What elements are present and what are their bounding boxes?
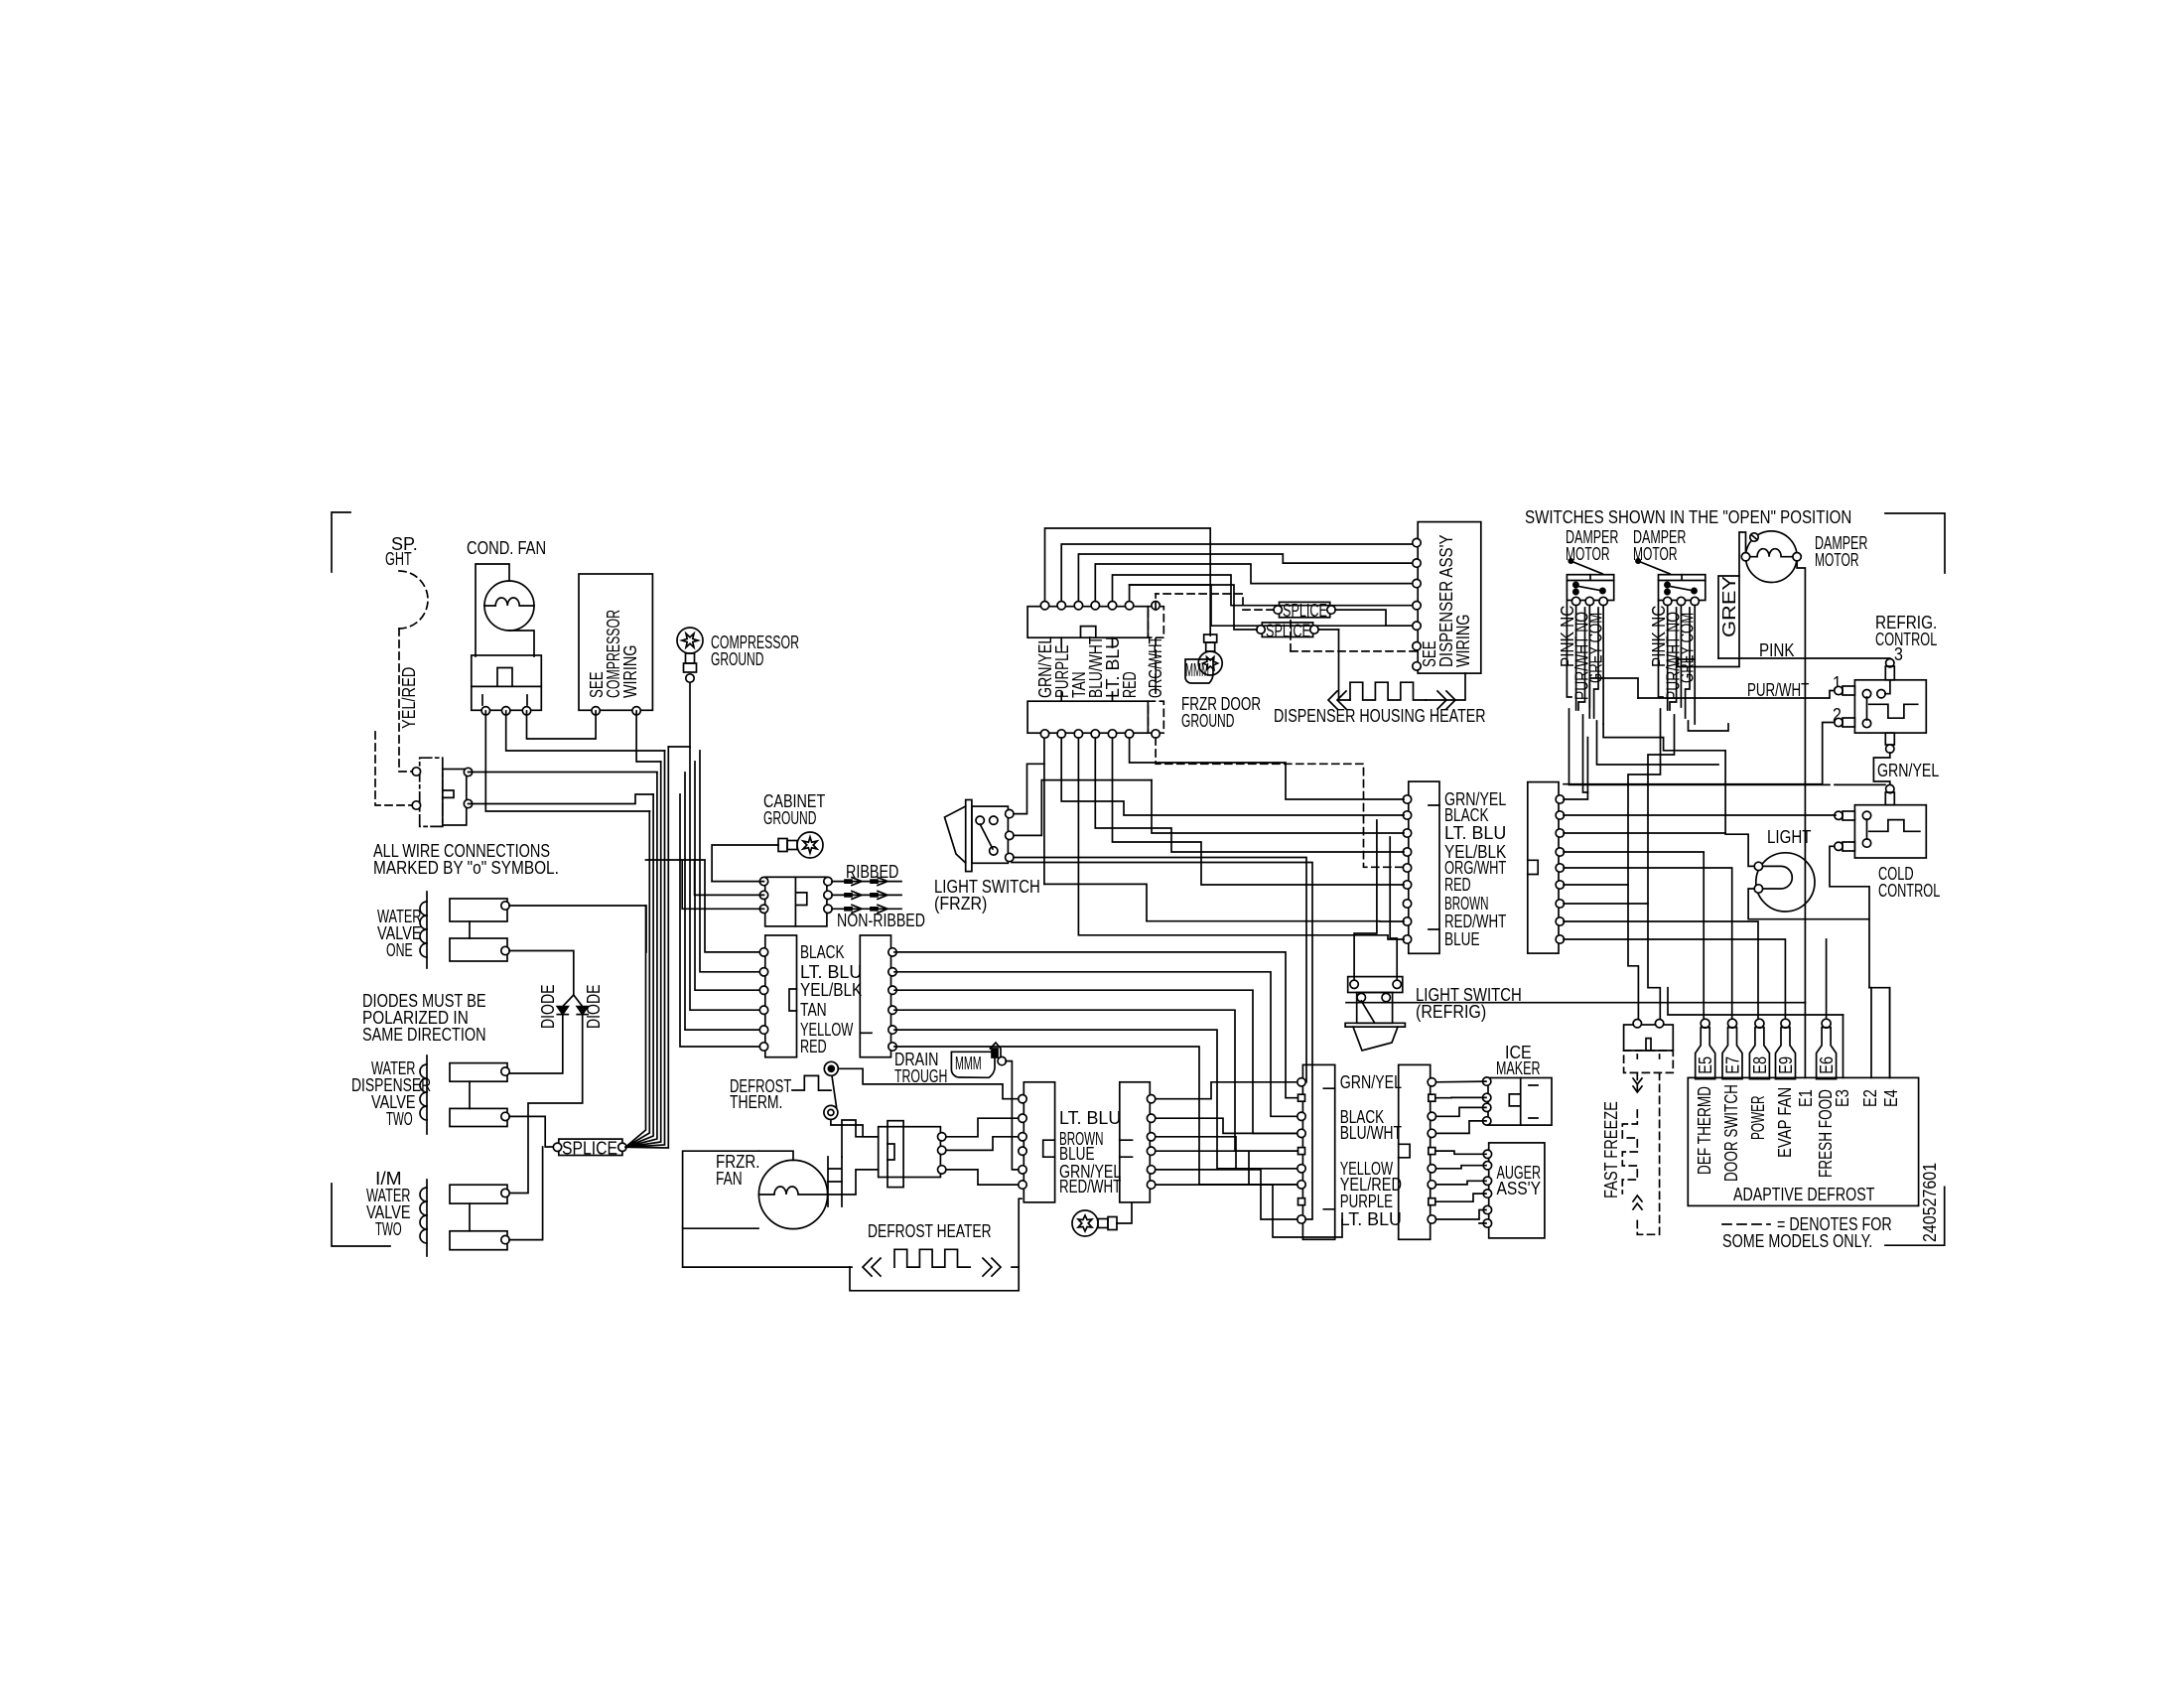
water dispenser valve terminal top bbox=[501, 1067, 509, 1075]
relay terminal 2 bbox=[502, 707, 510, 715]
svg-text:PURPLE: PURPLE bbox=[1340, 1192, 1393, 1211]
svg-text:SWITCHES SHOWN IN THE "OPEN" P: SWITCHES SHOWN IN THE "OPEN" POSITION bbox=[1525, 507, 1851, 527]
svg-text:BLU/WHT: BLU/WHT bbox=[1340, 1123, 1402, 1143]
svg-text:BLUE: BLUE bbox=[1444, 929, 1480, 949]
light switch REFRIG base plate bbox=[1345, 1023, 1405, 1027]
svg-text:PUR/WHT: PUR/WHT bbox=[1747, 680, 1809, 700]
spade terminal E6 bbox=[1822, 1019, 1831, 1028]
evap ground lug bbox=[1072, 1210, 1117, 1236]
svg-text:BLUE: BLUE bbox=[1059, 1144, 1095, 1164]
water valve one terminal bottom bbox=[501, 946, 509, 954]
svg-text:LT. BLU: LT. BLU bbox=[1444, 823, 1506, 843]
damper motor circle bbox=[1746, 531, 1798, 583]
upper strip dashed section bbox=[1148, 607, 1163, 638]
svg-text:DEF THERMD: DEF THERMD bbox=[1695, 1086, 1714, 1175]
relay terminal 1 bbox=[481, 707, 489, 715]
svg-text:E6: E6 bbox=[1817, 1056, 1837, 1074]
svg-text:GROUND: GROUND bbox=[711, 649, 763, 669]
auger pins bbox=[1483, 1150, 1491, 1158]
wires heater connector east bbox=[946, 1118, 1022, 1137]
water dispenser valve terminal bottom bbox=[501, 1112, 509, 1120]
ice maker pins bbox=[1483, 1077, 1491, 1085]
page corner bracket bottom-right bbox=[1885, 1187, 1945, 1245]
svg-text:CONTROL: CONTROL bbox=[1878, 881, 1940, 901]
cold control pin2 bbox=[1835, 842, 1843, 850]
svg-text:DEFROST HEATER: DEFROST HEATER bbox=[868, 1221, 992, 1241]
svg-text:MAKER: MAKER bbox=[1496, 1058, 1541, 1078]
cabinet ground wire bbox=[712, 845, 778, 882]
wire splice S3 right to heater bbox=[1318, 629, 1339, 631]
connector D pins bbox=[1428, 1078, 1435, 1086]
light switch REFRIG body bbox=[1357, 993, 1393, 1024]
IM water valve connector bbox=[450, 1185, 507, 1203]
splice S3 terminals bbox=[1257, 626, 1265, 633]
splice S2 terminals bbox=[1274, 606, 1282, 614]
wires lower strip drops to refrig harness connector bbox=[1061, 738, 1404, 885]
compressor box terminal 2 bbox=[632, 707, 640, 715]
wire row 874 to E7 bbox=[1564, 868, 1732, 1019]
damper switch column wires bbox=[1567, 601, 1695, 725]
lower strip dashed pin bbox=[1152, 730, 1160, 738]
wire feeders to wire-label connector bbox=[680, 747, 765, 1047]
dispenser box pins bbox=[1413, 538, 1421, 546]
svg-text:GREY: GREY bbox=[1719, 576, 1739, 637]
condenser fan relay box bbox=[472, 655, 542, 710]
damper switch SW1 bbox=[1567, 575, 1613, 601]
freezer harness connector bbox=[765, 877, 827, 926]
wire defrost therm top bbox=[838, 1068, 1022, 1098]
door switch dash-dot outline bbox=[420, 758, 443, 826]
page corner bracket top-left bbox=[332, 512, 350, 572]
page corner bracket top-right bbox=[1885, 513, 1945, 573]
damper motor terminals bbox=[1741, 553, 1749, 561]
strip column tick marks bbox=[1061, 637, 1112, 701]
damper switch 2 callout bbox=[1638, 561, 1670, 574]
dispenser assembly wiring box bbox=[1418, 522, 1481, 674]
freezer fan connector bars bbox=[828, 1157, 842, 1206]
wire light bottom bbox=[1748, 889, 1869, 919]
svg-text:RED: RED bbox=[1120, 671, 1140, 698]
svg-text:WIRING: WIRING bbox=[620, 645, 640, 698]
svg-text:CONTROL: CONTROL bbox=[1875, 630, 1937, 649]
fast freeze connector dashed bbox=[1624, 1051, 1674, 1072]
light switch FRZR terminals bbox=[1006, 809, 1014, 817]
door switch body bbox=[443, 770, 467, 826]
cabinet ground lug bbox=[778, 832, 823, 858]
svg-text:(FRZR): (FRZR) bbox=[934, 894, 987, 914]
wire light switch FRZR t1 bbox=[1014, 733, 1044, 813]
wire splice S2 right bbox=[1335, 610, 1418, 626]
spade terminal E5 bbox=[1701, 1019, 1709, 1028]
refrig harness connector right pins bbox=[1556, 795, 1564, 803]
svg-text:YEL/BLK: YEL/BLK bbox=[800, 980, 862, 1000]
drain trough clip bbox=[990, 1043, 1001, 1060]
light switch FRZR wedge bbox=[945, 806, 966, 863]
svg-text:E3: E3 bbox=[1833, 1089, 1852, 1107]
condenser fan motor side box bbox=[509, 631, 534, 656]
wire-name connector left box bbox=[765, 935, 797, 1057]
svg-text:BROWN: BROWN bbox=[1444, 894, 1489, 914]
freezer harness right pins bbox=[824, 877, 832, 885]
defrost heater arrows bbox=[863, 1258, 881, 1276]
svg-text:ASS'Y: ASS'Y bbox=[1497, 1179, 1542, 1198]
dispenser heater arrows bbox=[1328, 691, 1346, 709]
wire-name connector right pins bbox=[888, 948, 896, 956]
light switch REFRIG top bar bbox=[1348, 977, 1403, 993]
fast freeze dashed meander bbox=[1636, 1072, 1638, 1092]
svg-text:GRN/YEL: GRN/YEL bbox=[1877, 761, 1939, 780]
ice maker box bbox=[1488, 1078, 1552, 1126]
svg-text:PINK: PINK bbox=[1759, 640, 1795, 660]
svg-text:THERM.: THERM. bbox=[730, 1092, 782, 1112]
svg-text:SOME MODELS ONLY.: SOME MODELS ONLY. bbox=[1722, 1231, 1872, 1251]
diode D1 bbox=[563, 995, 574, 1007]
svg-text:TWO: TWO bbox=[386, 1109, 413, 1129]
svg-text:RED: RED bbox=[800, 1037, 827, 1056]
wire door switch t3 row bbox=[469, 772, 657, 774]
refrig harness connector left pins bbox=[1403, 795, 1411, 803]
upper strip dashed pin bbox=[1152, 602, 1160, 610]
svg-text:GROUND: GROUND bbox=[1181, 711, 1234, 731]
svg-text:COND. FAN: COND. FAN bbox=[467, 538, 546, 558]
svg-text:YEL/RED: YEL/RED bbox=[399, 667, 419, 729]
svg-text:TAN: TAN bbox=[800, 1000, 827, 1020]
damper switch 1 callout bbox=[1570, 561, 1602, 574]
defrost thermostat callout step bbox=[792, 1075, 831, 1090]
wire dashed to dispenser pin6 bbox=[1291, 650, 1418, 652]
cold control top pin bbox=[1886, 784, 1894, 792]
wire refrig pin2 bbox=[1564, 723, 1835, 784]
IM water valve coil bbox=[426, 1180, 428, 1256]
wire freezer harness feeds bbox=[712, 881, 763, 883]
freezer harness left pins bbox=[759, 877, 767, 885]
svg-text:RED: RED bbox=[1444, 875, 1471, 895]
svg-text:MOTOR: MOTOR bbox=[1815, 550, 1859, 570]
heater connector pins bbox=[938, 1133, 946, 1141]
freezer door harness upper strip bbox=[1027, 607, 1148, 638]
wires D to ice maker bbox=[1436, 1081, 1487, 1133]
light switch FRZR inner contacts bbox=[976, 816, 984, 824]
damper switch SW2 bbox=[1659, 575, 1706, 601]
wire frzr fan bottom lead bbox=[683, 1228, 850, 1267]
wire light top bbox=[1603, 724, 1754, 866]
connector A pins bbox=[1019, 1095, 1026, 1103]
svg-text:NON-RIBBED: NON-RIBBED bbox=[837, 911, 925, 930]
compressor box terminal 1 bbox=[592, 707, 600, 715]
water dispenser valve connector bbox=[450, 1063, 507, 1082]
wire freezer fan top bbox=[758, 1151, 793, 1160]
svg-text:DOOR SWITCH: DOOR SWITCH bbox=[1721, 1084, 1741, 1182]
wire cold pin2 down bbox=[1830, 846, 1890, 1077]
icemaker connector C bbox=[1302, 1064, 1334, 1239]
light switch REFRIG wedge bbox=[1353, 1027, 1398, 1051]
refrig control inner bbox=[1862, 690, 1870, 698]
cold control box bbox=[1854, 805, 1926, 858]
wire valve one top bbox=[509, 906, 646, 952]
svg-text:EVAP FAN: EVAP FAN bbox=[1775, 1087, 1795, 1158]
wire rows east of wire-name connector bbox=[894, 952, 1298, 1185]
wire diode right to IM valve bbox=[509, 1015, 583, 1194]
compressor ground lug bbox=[677, 628, 703, 672]
wire defrost therm bottom bbox=[831, 1119, 879, 1136]
wire damper motor right down bbox=[1797, 561, 1805, 1003]
svg-text:DIODE: DIODE bbox=[538, 985, 558, 1030]
condenser fan motor frame bbox=[476, 564, 509, 656]
wires heater connector west bbox=[842, 1120, 879, 1157]
spade terminal E9 bbox=[1781, 1019, 1790, 1028]
auger assembly box bbox=[1489, 1143, 1545, 1238]
refrig control bottom pin bbox=[1885, 733, 1894, 745]
fast freeze connector pins bbox=[1633, 1020, 1641, 1028]
defrost thermostat contacts bbox=[824, 1061, 838, 1075]
wire riser bundle to splice bbox=[625, 747, 668, 1148]
svg-text:E7: E7 bbox=[1723, 1056, 1743, 1074]
splice S1 terminal left bbox=[553, 1143, 561, 1151]
page corner bracket bottom-left bbox=[332, 1184, 390, 1246]
svg-text:WIRING: WIRING bbox=[1453, 615, 1473, 667]
heater connector inner bbox=[887, 1121, 903, 1188]
light switch REFRIG pins bbox=[1350, 980, 1358, 988]
svg-text:MARKED BY "o" SYMBOL.: MARKED BY "o" SYMBOL. bbox=[373, 858, 559, 878]
freezer door ground MMM box bbox=[1185, 659, 1213, 683]
wire freezer fan to plug bbox=[828, 1181, 842, 1183]
svg-text:LT. BLU: LT. BLU bbox=[1340, 1209, 1402, 1229]
door switch terminal 3 bbox=[464, 768, 472, 775]
heater connector outer bbox=[879, 1127, 941, 1178]
condenser fan motor circle bbox=[484, 581, 534, 631]
door switch terminal 4 bbox=[464, 799, 472, 807]
svg-text:POWER: POWER bbox=[1748, 1096, 1768, 1141]
wire light switch t2 chain to right connector bbox=[1152, 780, 1404, 833]
wire-name connector right box bbox=[860, 935, 890, 1057]
wire dashed branch bbox=[375, 732, 416, 805]
svg-text:SAME DIRECTION: SAME DIRECTION bbox=[362, 1025, 486, 1045]
svg-text:E5: E5 bbox=[1696, 1056, 1715, 1074]
connector C pins bbox=[1297, 1078, 1305, 1086]
water valve one coil bbox=[426, 892, 428, 968]
svg-text:ADAPTIVE DEFROST: ADAPTIVE DEFROST bbox=[1733, 1185, 1874, 1204]
splice S2 box bbox=[1280, 602, 1330, 617]
refrig harness connector left bbox=[1409, 781, 1439, 953]
adaptive defrost board box bbox=[1688, 1077, 1918, 1205]
cold control pin1 bbox=[1835, 811, 1843, 819]
damper switch bottom rows bbox=[1570, 709, 1831, 904]
svg-text:ONE: ONE bbox=[386, 940, 413, 960]
lower strip bbox=[1027, 701, 1148, 733]
wire upper strip fan to dispenser box bbox=[1045, 528, 1211, 635]
fast freeze connector solid bbox=[1624, 1025, 1674, 1051]
svg-text:TWO: TWO bbox=[375, 1219, 402, 1239]
wire-name connector left pins bbox=[759, 948, 767, 956]
wire IM valve bottom to splice bbox=[509, 1147, 543, 1240]
svg-text:TROUGH: TROUGH bbox=[894, 1066, 947, 1086]
svg-text:DIODE: DIODE bbox=[584, 985, 604, 1030]
drain trough terminal bbox=[998, 1056, 1006, 1064]
compressor wiring box bbox=[579, 574, 652, 710]
wire splice S2 left bbox=[1156, 594, 1274, 610]
svg-text:(REFRIG): (REFRIG) bbox=[1416, 1002, 1486, 1022]
wire grey damper motor bbox=[1678, 532, 1746, 667]
light terminals bbox=[1754, 862, 1762, 870]
svg-text:RED/WHT: RED/WHT bbox=[1444, 912, 1506, 931]
water valve one terminal top bbox=[501, 902, 509, 910]
svg-text:SPLICE: SPLICE bbox=[562, 1139, 617, 1159]
wire drain trough down bbox=[1006, 1061, 1022, 1170]
wire GRN/YEL jog bbox=[1873, 753, 1889, 784]
refrigerator light circle bbox=[1756, 853, 1815, 912]
wire valve two bottom to splice bbox=[509, 1116, 556, 1147]
svg-text:GRN/YEL: GRN/YEL bbox=[1340, 1072, 1402, 1092]
defrost heater leads bbox=[850, 1198, 1022, 1291]
wires D to auger bbox=[1436, 1151, 1487, 1223]
svg-text:3: 3 bbox=[1894, 644, 1903, 664]
svg-text:RIBBED: RIBBED bbox=[846, 862, 898, 882]
water dispenser valve coil bbox=[426, 1055, 428, 1134]
wires light switch REFRIG bbox=[1354, 820, 1377, 980]
wire splice S3 left bbox=[1130, 585, 1257, 630]
relay terminal 3 bbox=[522, 707, 530, 715]
door switch terminal dashed 1 bbox=[412, 768, 420, 775]
wires east of refrig harness connector bbox=[1564, 738, 1836, 1024]
icemaker connector D bbox=[1399, 1064, 1431, 1239]
splice S1 box bbox=[559, 1139, 622, 1155]
svg-text:LIGHT: LIGHT bbox=[1767, 827, 1812, 847]
wire center rows to right connector pins 8 9 bbox=[1147, 920, 1404, 922]
wire compressor ground drop bbox=[668, 683, 690, 747]
wire to cold control top bbox=[1835, 783, 1885, 785]
refrig control pin1 bbox=[1835, 686, 1843, 694]
refrig control pin3 bbox=[1886, 659, 1894, 667]
IM water valve terminal top bbox=[501, 1189, 509, 1196]
svg-text:E9: E9 bbox=[1776, 1056, 1796, 1074]
compressor ground terminal bbox=[686, 674, 694, 682]
splice S3 box bbox=[1262, 623, 1312, 637]
svg-text:GHT: GHT bbox=[385, 549, 412, 569]
wire relay t1 row bbox=[485, 711, 649, 811]
middle band wire rows bbox=[1012, 863, 1312, 1220]
refrig control pin2 bbox=[1835, 718, 1843, 726]
wires E1 E3 E2 E4 into board bbox=[1805, 939, 1889, 1077]
spade terminal E8 bbox=[1755, 1019, 1764, 1028]
water valve one connector bbox=[450, 899, 507, 921]
svg-text:240527601: 240527601 bbox=[1920, 1163, 1940, 1242]
lower strip dashed section bbox=[1148, 701, 1163, 733]
svg-text:FAN: FAN bbox=[716, 1169, 743, 1189]
wires connector B east bbox=[1156, 1082, 1342, 1237]
upper strip pins bbox=[1040, 602, 1048, 610]
refrig control box bbox=[1854, 680, 1926, 733]
svg-text:LT. BLU: LT. BLU bbox=[800, 962, 862, 982]
evaporator connector B bbox=[1120, 1082, 1151, 1202]
wire PUR/WHT bbox=[1638, 691, 1835, 699]
svg-text:BLACK: BLACK bbox=[1444, 805, 1489, 825]
splice S1 terminal right bbox=[618, 1143, 626, 1151]
wire evap ground bbox=[1117, 1202, 1132, 1223]
connector B pins bbox=[1147, 1095, 1155, 1103]
svg-text:LT. BLU: LT. BLU bbox=[1059, 1108, 1121, 1128]
svg-text:MMM: MMM bbox=[955, 1054, 982, 1073]
wire relay U-link bbox=[527, 711, 597, 739]
svg-text:DISPENSER HOUSING HEATER: DISPENSER HOUSING HEATER bbox=[1274, 706, 1486, 726]
svg-text:FAST FREEZE: FAST FREEZE bbox=[1601, 1101, 1621, 1198]
svg-text:E1: E1 bbox=[1796, 1089, 1816, 1107]
wire light switch FRZR t2 bbox=[1014, 780, 1152, 836]
spade terminal E7 bbox=[1728, 1019, 1737, 1028]
svg-text:SPLICE: SPLICE bbox=[1266, 622, 1310, 641]
svg-text:SPLICE: SPLICE bbox=[1283, 601, 1327, 621]
IM water valve terminal bottom bbox=[501, 1235, 509, 1243]
fast freeze dashed return bbox=[1637, 1072, 1659, 1234]
evaporator connector A bbox=[1024, 1082, 1054, 1202]
wire dashed from dispenser light bbox=[399, 629, 416, 772]
cold control inner bbox=[1862, 811, 1870, 819]
wire light switch FRZR t3 bbox=[1014, 858, 1306, 1082]
note DENOTES FOR SOME MODELS ONLY bbox=[1722, 1223, 1770, 1225]
svg-text:E2: E2 bbox=[1860, 1089, 1880, 1107]
svg-text:E4: E4 bbox=[1881, 1089, 1901, 1107]
wire PINK bbox=[1718, 657, 1890, 660]
freezer harness crimp wires bbox=[832, 881, 901, 883]
drain trough icon bbox=[951, 1052, 995, 1077]
refrig harness connector right bbox=[1528, 782, 1559, 954]
svg-text:BLACK: BLACK bbox=[800, 942, 845, 962]
dispenser housing heater element bbox=[1339, 630, 1351, 700]
svg-text:GROUND: GROUND bbox=[763, 808, 816, 828]
wire door switch t4 row bbox=[469, 794, 654, 804]
lower strip pins bbox=[1040, 730, 1048, 738]
light switch FRZR body bbox=[972, 806, 1009, 863]
freezer door ground lug bbox=[1198, 634, 1222, 675]
light switch FRZR plate bbox=[966, 800, 972, 872]
diode D2 bbox=[574, 995, 583, 1007]
wires right mesh staircase bbox=[1346, 988, 1843, 1015]
wire lower strip pin1 drop bbox=[1043, 764, 1045, 884]
freezer fan frame bbox=[683, 1151, 758, 1228]
dispenser light dashed arc bbox=[399, 571, 428, 629]
wire valve one bottom to diodes bbox=[509, 951, 574, 996]
svg-text:RED/WHT: RED/WHT bbox=[1059, 1177, 1121, 1196]
wire compressor box t2 row bbox=[636, 711, 661, 762]
wire relay t2 row bbox=[506, 711, 665, 751]
door switch terminal dashed 2 bbox=[412, 801, 420, 809]
wire row 866 to label box bbox=[646, 860, 765, 952]
svg-text:MMM: MMM bbox=[1185, 660, 1209, 680]
defrost heater element bbox=[894, 1249, 970, 1267]
freezer fan motor bbox=[758, 1160, 827, 1228]
wire dashed ORG/WHT route bbox=[1155, 594, 1157, 610]
svg-text:E8: E8 bbox=[1750, 1056, 1770, 1074]
